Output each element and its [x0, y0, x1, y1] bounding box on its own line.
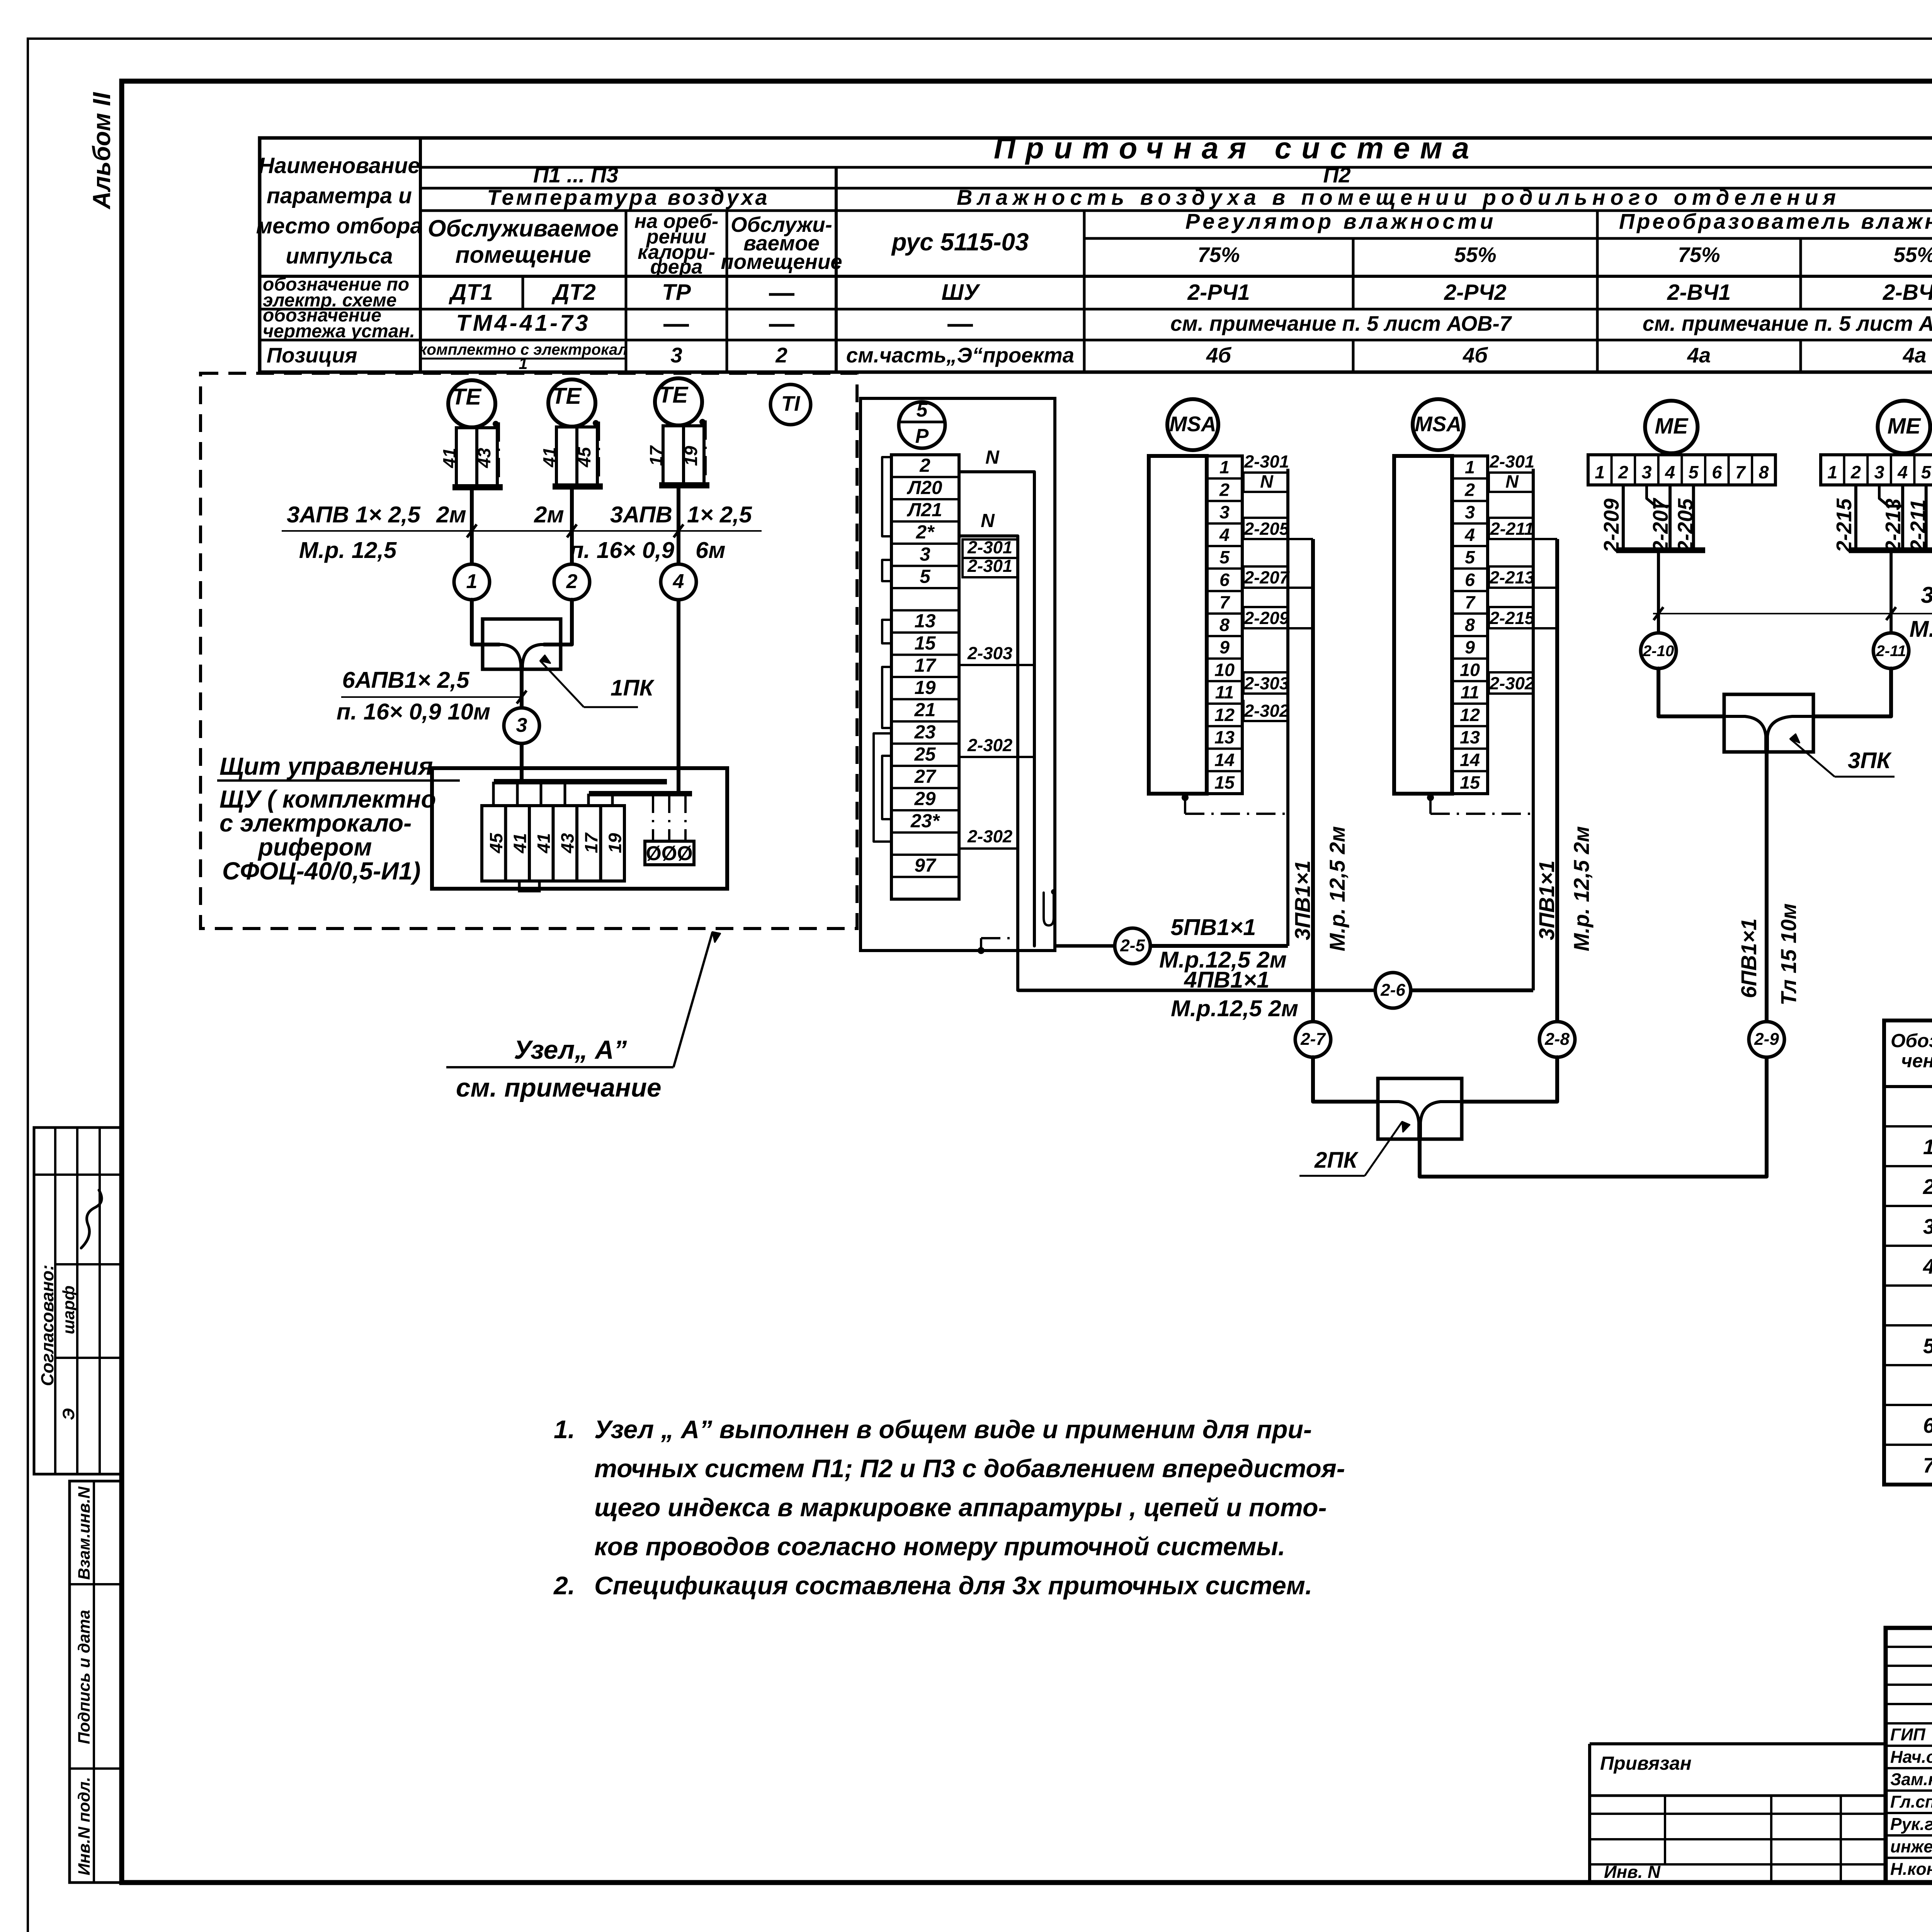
svg-text:2-213: 2-213 — [1881, 498, 1905, 553]
svg-text:11: 11 — [1215, 682, 1234, 702]
capillary of TE3 (TP) — [699, 419, 706, 484]
svg-text:см. примечание: см. примечание — [456, 1073, 662, 1102]
svg-text:7: 7 — [1219, 592, 1230, 612]
header Обслуживаемое помещение 2 — [721, 213, 842, 274]
wire label 2-215 at MSA2 — [1489, 607, 1557, 628]
label Тл 15 10м vertical — [1776, 903, 1801, 1005]
header Влажность воздуха — [957, 185, 1841, 209]
binding extension table — [1590, 1744, 1886, 1883]
svg-text:3ПК: 3ПК — [1848, 748, 1892, 773]
label 2м second — [534, 502, 564, 527]
title row Нач.отд. Гужва — [1890, 1745, 1932, 1767]
svg-text:Привязан: Привязан — [1600, 1753, 1692, 1774]
cell см. примечание лист АОВ-7 — [1170, 312, 1512, 335]
svg-text:45: 45 — [574, 447, 594, 468]
svg-text:2-301: 2-301 — [967, 556, 1012, 576]
svg-text:5ПВ1×1: 5ПВ1×1 — [1171, 914, 1256, 940]
wire label 2-301 row 3 — [963, 537, 1018, 558]
riser 5ПВ at MSA1 — [1286, 469, 1289, 946]
cell ДТ1 — [448, 280, 493, 305]
approval table — [34, 1128, 121, 1474]
svg-text:Э: Э — [60, 1408, 78, 1420]
circuit circle 4 — [661, 564, 696, 600]
label п.16х0,9 6м — [570, 537, 725, 563]
terminal 3 of MSA1 — [1219, 502, 1230, 522]
svg-text:Узел „ А” выполнен в общем: Узел „ А” выполнен в общем виде и примен… — [594, 1415, 1312, 1444]
svg-text:2ПК: 2ПК — [1314, 1148, 1359, 1173]
wire label N at MSA2 — [1489, 471, 1533, 492]
svg-text:6: 6 — [1219, 570, 1230, 590]
terminal 2 of ME1 — [1618, 462, 1628, 482]
svg-text:Н.контр.: Н.контр. — [1890, 1860, 1932, 1879]
svg-text:ТI: ТI — [781, 392, 801, 415]
svg-text:55%: 55% — [1454, 243, 1496, 267]
svg-text:10: 10 — [1460, 660, 1480, 680]
svg-text:2.: 2. — [553, 1571, 575, 1600]
svg-text:2-205: 2-205 — [1244, 519, 1289, 539]
svg-text:ков проводов согласно номер: ков проводов согласно номеру приточной с… — [594, 1532, 1285, 1561]
svg-text:рифером: рифером — [257, 833, 372, 861]
wire label 2-207 of ME1 — [1649, 498, 1672, 553]
terminal bus 1 — [494, 779, 667, 784]
svg-text:2-6: 2-6 — [1380, 981, 1405, 1000]
svg-text:3АПВ 1× 2,5: 3АПВ 1× 2,5 — [287, 502, 420, 527]
svg-text:ДТ2: ДТ2 — [551, 280, 596, 305]
terminal 3 of MSA2 — [1465, 502, 1475, 522]
svg-text:4б: 4б — [1463, 344, 1488, 367]
drop wire of ME2 — [1889, 550, 1893, 633]
svg-text:41: 41 — [510, 833, 530, 854]
terminal strip of ME2 — [1821, 455, 1932, 485]
svg-text:23*: 23* — [910, 810, 940, 832]
svg-text:2-205: 2-205 — [1674, 498, 1697, 553]
title row Н.контр. Горвалетова — [1890, 1857, 1932, 1879]
svg-text:см.часть„Э“проекта: см.часть„Э“проекта — [846, 344, 1074, 367]
svg-text:1: 1 — [1827, 462, 1837, 482]
svg-text:ТЕ: ТЕ — [552, 383, 582, 409]
svg-text:75%: 75% — [1678, 243, 1720, 267]
svg-text:8: 8 — [1759, 462, 1769, 482]
wire from terminal 5 of ME2 — [1925, 485, 1928, 548]
svg-text:1: 1 — [1465, 457, 1475, 477]
svg-text:Обозна-: Обозна- — [1891, 1030, 1932, 1051]
svg-text:параметра и: параметра и — [267, 184, 412, 208]
label М.р.12,5 2м vertical MSA1 — [1325, 826, 1349, 951]
title row ГИП Клейн — [1890, 1723, 1932, 1744]
svg-text:Спецификация составлена для: Спецификация составлена для 3х приточных… — [594, 1571, 1312, 1600]
svg-text:5: 5 — [1219, 547, 1230, 567]
svg-text:2-207: 2-207 — [1649, 498, 1672, 553]
terminal 13 of MSA1 — [1214, 727, 1235, 747]
wire from terminal 2 of ME1 — [1622, 485, 1625, 548]
label Узел А with leader — [446, 932, 720, 1102]
terminal 2 of 5P — [919, 455, 930, 476]
svg-text:2-10: 2-10 — [1643, 642, 1674, 660]
header Регулятор влажности — [1185, 209, 1497, 233]
label М.р. 12,5 — [299, 537, 397, 563]
svg-text:1× 2,5: 1× 2,5 — [687, 502, 752, 527]
svg-text:4а: 4а — [1903, 344, 1927, 367]
terminal 1 of ME2 — [1827, 462, 1837, 482]
wire N from terminal 2* — [959, 510, 1018, 990]
svg-text:М.р. 12,5 2м: М.р. 12,5 2м — [1569, 826, 1594, 951]
svg-text:СФОЦ-40/0,5-И1): СФОЦ-40/0,5-И1) — [222, 857, 421, 885]
svg-text:Подпись и дата: Подпись и дата — [75, 1610, 94, 1744]
svg-text:М.р. 12,5 2м: М.р. 12,5 2м — [1325, 826, 1349, 951]
svg-text:2-215: 2-215 — [1489, 608, 1535, 628]
marker circle 2-7 — [1295, 1022, 1331, 1057]
cell 2-РЧ1 — [1187, 280, 1250, 305]
terminal 5 of MSA2 — [1465, 547, 1475, 567]
svg-text:2-209: 2-209 — [1600, 498, 1623, 553]
svg-text:29: 29 — [914, 788, 936, 810]
cell 75% 2 — [1678, 243, 1720, 267]
svg-text:45: 45 — [486, 833, 506, 854]
cell ДТ2 — [551, 280, 596, 305]
dimension line 6АПВ — [341, 690, 527, 704]
svg-text:ТМ4-41-73: ТМ4-41-73 — [456, 310, 590, 336]
svg-text:Позиция: Позиция — [267, 344, 357, 367]
svg-text:2-11: 2-11 — [1876, 642, 1906, 660]
svg-text:5: 5 — [1921, 462, 1932, 482]
wire N from terminal 2 — [959, 447, 1034, 946]
svg-text:7: 7 — [1923, 1454, 1932, 1477]
svg-text:рус 5115-03: рус 5115-03 — [891, 228, 1029, 256]
thermowell of TE2 (DT2) — [556, 427, 597, 486]
terminal 4 of MSA2 — [1464, 525, 1475, 545]
marker circle 2-8 — [1539, 1022, 1575, 1057]
svg-text:2-213: 2-213 — [1489, 568, 1534, 587]
wire label 2-301 row 5 — [963, 556, 1018, 577]
svg-text:2-302: 2-302 — [1489, 673, 1534, 693]
terminal strip of MSA2 — [1452, 456, 1488, 794]
header Обслуживаемое помещение — [428, 215, 619, 268]
wire label 2-209 at MSA1 — [1243, 607, 1313, 628]
album label — [88, 92, 116, 210]
pin 19 of TE3 (TP) — [681, 446, 701, 466]
svg-text:М.р.12,5 2м: М.р.12,5 2м — [1171, 995, 1298, 1021]
svg-text:4б: 4б — [1206, 344, 1231, 367]
wire label 2-302 row21 — [959, 735, 1034, 757]
marker circle 2-11 — [1873, 633, 1909, 668]
terminal 10 of MSA1 — [1214, 660, 1235, 680]
parameter table grid — [260, 138, 1932, 372]
wire from terminal 5 of ME1 — [1692, 485, 1695, 548]
svg-text:3: 3 — [516, 714, 527, 736]
shield tie of 5P — [978, 938, 1018, 954]
terminal 2 of MSA1 — [1219, 480, 1230, 500]
svg-text:2-211: 2-211 — [1490, 519, 1534, 539]
svg-text:Рук.гр.: Рук.гр. — [1890, 1815, 1932, 1834]
terminal 9 of MSA1 — [1219, 637, 1230, 657]
cell 2-РЧ2 — [1444, 280, 1506, 305]
label Э — [60, 1408, 78, 1420]
pin 17 of TE3 (TP) — [646, 445, 666, 466]
label 3ПВ 1х1 — [1921, 582, 1932, 608]
terminal 2 of MSA2 — [1464, 480, 1475, 500]
svg-text:2-ВЧ2: 2-ВЧ2 — [1883, 280, 1932, 305]
svg-text:2м: 2м — [534, 502, 564, 527]
terminal 1 of ME1 — [1595, 462, 1605, 482]
wire label 2-213 at MSA2 — [1489, 566, 1557, 588]
svg-text:1: 1 — [466, 570, 478, 593]
svg-text:15: 15 — [1460, 772, 1480, 793]
svg-text:41: 41 — [534, 833, 554, 854]
wire label 2-301 at MSA2 — [1489, 452, 1534, 471]
terminal 15 of MSA1 — [1214, 772, 1235, 793]
svg-text:Наименование: Наименование — [259, 153, 420, 178]
svg-text:2-РЧ2: 2-РЧ2 — [1444, 280, 1506, 305]
svg-text:3ПВ1×1: 3ПВ1×1 — [1290, 861, 1315, 940]
heater connector ØØØ — [645, 794, 694, 865]
wire label 2-302 at MSA2 — [1489, 672, 1534, 694]
svg-text:4: 4 — [1219, 525, 1230, 545]
wire circle2 to box 1ПК — [544, 600, 572, 645]
title row Гл.спец. Паз — [1890, 1790, 1932, 1811]
signature in approval table — [81, 1190, 102, 1248]
wire circle 3 to panel — [520, 743, 524, 782]
svg-text:3: 3 — [1874, 462, 1884, 482]
cell комплектно с электрокал — [419, 341, 628, 372]
svg-text:место отбора: место отбора — [256, 214, 422, 238]
svg-text:Согласовано:: Согласовано: — [37, 1265, 57, 1386]
title row Зам.н.о. Выборный — [1890, 1767, 1932, 1789]
specification table grid — [1884, 1020, 1932, 1485]
svg-text:ЩУ ( комплектно: ЩУ ( комплектно — [219, 786, 436, 813]
cell 75% — [1197, 243, 1240, 267]
label Согласовано — [37, 1265, 57, 1386]
svg-text:ТР: ТР — [662, 280, 691, 305]
svg-text:см. примечание п. 5 лист АОВ: см. примечание п. 5 лист АОВ-7 — [1643, 312, 1932, 335]
svg-text:2-209: 2-209 — [1244, 608, 1289, 628]
svg-text:3ПВ1×1: 3ПВ1×1 — [1534, 861, 1559, 940]
device circle 5/P — [899, 399, 945, 448]
svg-text:1.: 1. — [554, 1415, 575, 1444]
cell 4а второй — [1903, 344, 1927, 367]
label М.р. 12,5 2м at ME — [1910, 616, 1932, 642]
svg-text:М.р. 12,5 2м: М.р. 12,5 2м — [1910, 616, 1932, 642]
svg-text:3: 3 — [920, 544, 930, 565]
cell см. примечание лист АОВ-7 второй — [1643, 312, 1932, 335]
svg-text:шарф: шарф — [60, 1286, 78, 1334]
svg-text:2: 2 — [1464, 480, 1475, 500]
svg-text:N: N — [1260, 471, 1274, 492]
svg-text:5: 5 — [1689, 462, 1699, 482]
mount bar of ME2 — [1849, 548, 1932, 553]
marker circle 2-6 — [1375, 973, 1411, 1008]
terminal 17 of ЩУ — [581, 832, 601, 853]
svg-text:ДТ1: ДТ1 — [448, 280, 493, 305]
thermowell of TE3 (TP) — [663, 426, 704, 485]
capillary of TE2 (DT2) — [593, 420, 599, 485]
terminal 3 of 5P — [920, 544, 930, 565]
cell 4б второй — [1463, 344, 1488, 367]
wire circle 4 to panel — [677, 600, 680, 794]
terminal 7 of MSA2 — [1465, 592, 1476, 612]
svg-text:6м: 6м — [696, 537, 726, 563]
label Щит управления — [217, 753, 460, 885]
terminal 12 of MSA1 — [1214, 705, 1235, 725]
svg-text:3: 3 — [1923, 1215, 1932, 1238]
cell 2 — [775, 344, 787, 367]
wire circle1 to box 1ПК — [472, 600, 499, 645]
title row Рук.гр. Анбиндер — [1890, 1812, 1932, 1834]
label 3ПВ1х1 vertical MSA2 — [1534, 861, 1559, 940]
terminal 41 of ЩУ — [510, 833, 530, 854]
wire label 2-211 at MSA2 — [1489, 518, 1557, 539]
svg-text:2-ВЧ1: 2-ВЧ1 — [1667, 280, 1731, 305]
terminal 5 of ME2 — [1921, 462, 1932, 482]
wire label 2-205 of ME1 — [1674, 498, 1697, 553]
svg-text:МЕ: МЕ — [1655, 414, 1689, 439]
dash cell 3 — [663, 324, 689, 327]
svg-text:2-301: 2-301 — [1244, 452, 1289, 471]
wire 2-10 to 3ПК — [1658, 668, 1724, 716]
svg-text:6ПВ1×1: 6ПВ1×1 — [1736, 918, 1761, 998]
wire 2-9 down — [1765, 1057, 1769, 1177]
svg-text:МSА: МSА — [1415, 412, 1461, 436]
indicator TI — [770, 384, 811, 425]
label 2ПК with leader — [1299, 1122, 1410, 1176]
svg-text:2-9: 2-9 — [1754, 1030, 1779, 1049]
cell 2-ВЧ2 — [1883, 280, 1932, 305]
terminal 11 of MSA2 — [1461, 682, 1480, 702]
spec row 2 АПВ 1× 2,5 — [1923, 1134, 1932, 1159]
terminal 8 of MSA2 — [1465, 615, 1475, 635]
terminal 10 of MSA2 — [1460, 660, 1480, 680]
link terminal 3 of ME2 — [1879, 485, 1903, 506]
terminal 43 of ЩУ — [558, 833, 578, 854]
header Наименование параметра — [256, 153, 422, 269]
cell рус 5115-03 — [891, 228, 1029, 256]
capillary of TE1 (DT1) — [493, 421, 499, 486]
svg-text:1: 1 — [1595, 462, 1605, 482]
circuit circle 3 — [504, 708, 539, 743]
marker circle 2-5 — [1115, 928, 1150, 964]
marker circle 2-10 — [1641, 633, 1676, 668]
svg-text:Л20: Л20 — [907, 477, 942, 498]
svg-text:13: 13 — [915, 611, 936, 632]
drop 3ПВ of MSA1 — [1311, 539, 1315, 1022]
terminal 4 of ME1 — [1665, 462, 1675, 482]
title row инженер Глазова — [1890, 1835, 1932, 1856]
label п.16х0,9 10м — [337, 699, 490, 724]
svg-text:3АПВ: 3АПВ — [610, 502, 672, 527]
svg-text:2*: 2* — [916, 522, 935, 543]
svg-text:14: 14 — [1214, 750, 1235, 770]
label шарф — [60, 1286, 78, 1334]
svg-text:инженер: инженер — [1890, 1837, 1932, 1856]
sensor TE2 (DT2) — [548, 379, 595, 427]
terminal 17 of 5P — [915, 655, 937, 676]
svg-text:Температура воздуха: Температура воздуха — [487, 185, 769, 209]
svg-text:2-РЧ1: 2-РЧ1 — [1187, 280, 1250, 305]
terminal 19 of 5P — [915, 677, 936, 698]
svg-text:П1 ... П3: П1 ... П3 — [533, 163, 618, 187]
svg-text:Инв.N подл.: Инв.N подл. — [75, 1777, 94, 1876]
spec header Обозначение — [1891, 1030, 1932, 1071]
marker circle 2-9 — [1749, 1022, 1784, 1057]
svg-text:13: 13 — [1460, 727, 1480, 747]
header Преобразователь влажности — [1619, 209, 1932, 233]
svg-text:4: 4 — [1897, 462, 1908, 482]
node A dashed boundary — [201, 373, 857, 929]
wire label 2-205 at MSA1 — [1243, 518, 1313, 539]
svg-text:3ПВ 1×1: 3ПВ 1×1 — [1921, 582, 1932, 608]
label 5ПВ1х1 — [1171, 914, 1256, 940]
body of MSA1 — [1149, 456, 1207, 794]
body of MSA2 — [1394, 456, 1452, 794]
label Взам.инв.N — [75, 1486, 94, 1580]
svg-text:10: 10 — [1214, 660, 1235, 680]
device circle ME1 — [1645, 401, 1697, 453]
header на оребрении калорифера — [634, 210, 718, 278]
label 3АПВ 1х2,5 left — [287, 502, 420, 527]
svg-text:2-207: 2-207 — [1244, 568, 1290, 587]
svg-text:2-211: 2-211 — [1906, 499, 1930, 552]
terminal 2 of ME2 — [1850, 462, 1861, 482]
cell ТМ4-41-73 — [456, 310, 590, 336]
svg-text:15: 15 — [915, 633, 936, 654]
dash cell 5 — [947, 324, 973, 327]
svg-text:п. 16× 0,9: п. 16× 0,9 — [570, 537, 674, 563]
terminal 13 of MSA2 — [1460, 727, 1480, 747]
terminal 27 of 5P — [914, 766, 937, 787]
svg-text:2: 2 — [775, 344, 787, 367]
svg-text:2: 2 — [1219, 480, 1230, 500]
cell 55% — [1454, 243, 1496, 267]
row обозначение по электр. схеме — [263, 274, 409, 311]
wire 4ПВ1х1 run — [1018, 989, 1533, 992]
svg-text:41: 41 — [439, 448, 459, 468]
label 3ПК with leader — [1790, 734, 1895, 777]
svg-text:4: 4 — [1464, 525, 1475, 545]
svg-text:помещение: помещение — [721, 250, 842, 274]
row Позиция — [267, 344, 357, 367]
svg-text:97: 97 — [915, 855, 937, 876]
svg-text:1: 1 — [519, 354, 527, 372]
svg-text:2-5: 2-5 — [1120, 936, 1145, 955]
svg-text:2м: 2м — [436, 502, 466, 527]
pin 41 of TE2 (DT2) — [539, 447, 560, 468]
wire label 2-303 at MSA1 — [1243, 672, 1289, 694]
pin 41 of TE1 (DT1) — [439, 448, 459, 468]
svg-text:Взам.инв.N: Взам.инв.N — [75, 1486, 94, 1580]
table title Приточная система — [994, 131, 1479, 165]
dash cell 4 — [769, 324, 794, 327]
cable sheath symbol in 5P — [1044, 889, 1056, 925]
spec row 4 Трубка ШТВ-40-230-16× 0,9 — [1923, 1214, 1932, 1239]
wire label 2-211 of ME2 — [1906, 499, 1930, 552]
svg-text:Инв. N: Инв. N — [1604, 1862, 1661, 1882]
svg-text:Приточная система: Приточная система — [994, 131, 1479, 165]
jumper brackets of 5P — [874, 457, 891, 842]
svg-text:19: 19 — [915, 677, 936, 698]
svg-text:7: 7 — [1465, 592, 1476, 612]
svg-text:Преобразователь влажности: Преобразователь влажности — [1619, 209, 1932, 233]
circuit circle 2 — [554, 564, 590, 600]
wire from terminal 4 of ME2 — [1901, 485, 1904, 548]
label 1ПК with leader — [540, 655, 655, 707]
svg-text:6: 6 — [1923, 1414, 1932, 1437]
svg-text:Обслуживаемое: Обслуживаемое — [428, 215, 619, 241]
header П2 — [1323, 163, 1350, 187]
terminal 25 of 5P — [914, 744, 936, 765]
wire label 2-207 at MSA1 — [1243, 566, 1313, 588]
terminal 15 of MSA2 — [1460, 772, 1480, 793]
svg-text:М.р. 12,5: М.р. 12,5 — [299, 537, 397, 563]
header П1...П3 — [533, 163, 618, 187]
